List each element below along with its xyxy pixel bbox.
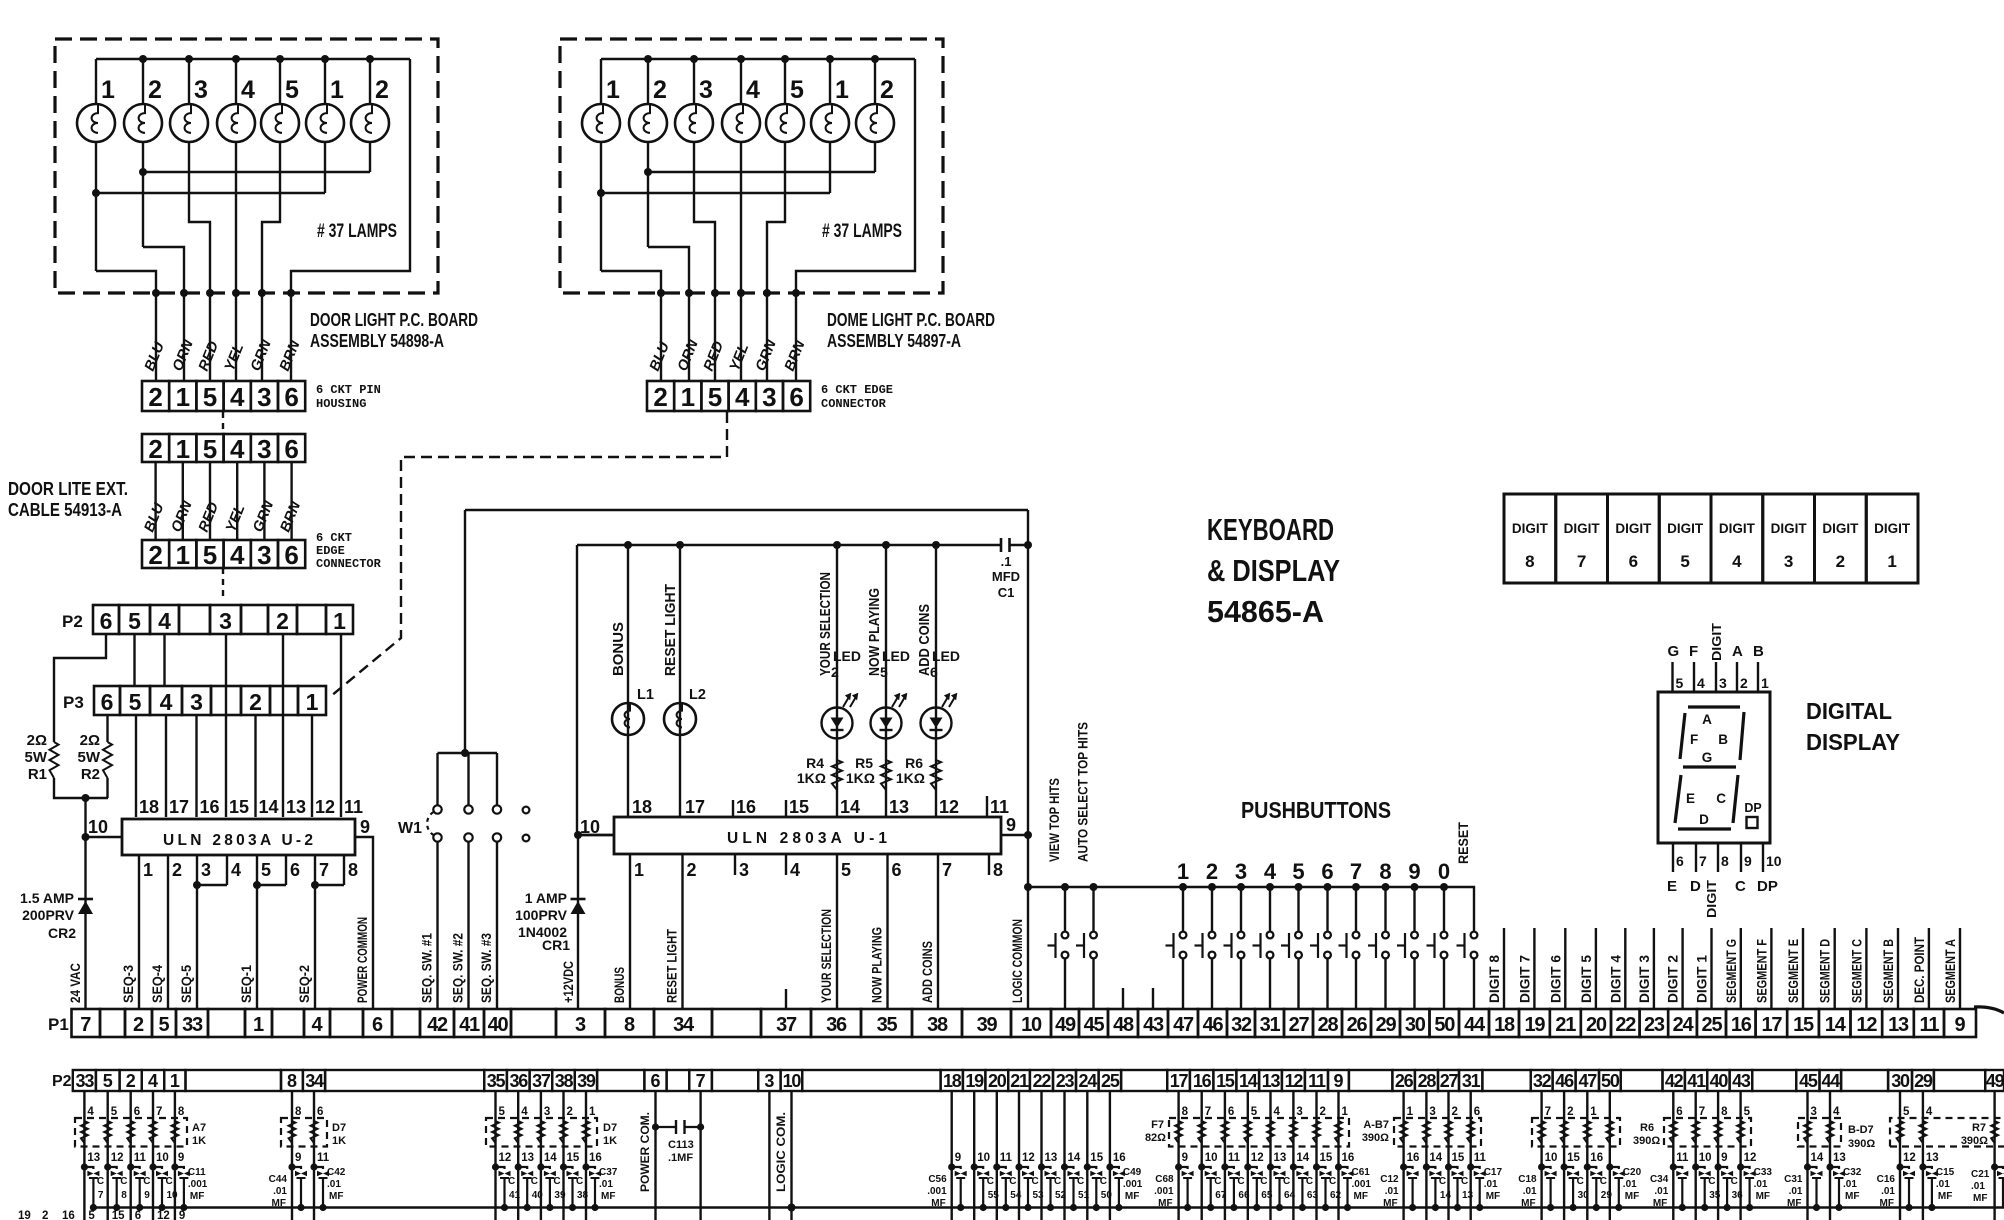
stub wire DIGIT 2: [1681, 928, 1683, 1009]
wire from P2 down: [1247, 1091, 1249, 1220]
svg-text:48: 48: [1113, 1014, 1134, 1036]
svg-text:16: 16: [62, 1210, 75, 1220]
svg-text:3: 3: [194, 76, 208, 104]
svg-text:7: 7: [156, 1106, 162, 1118]
ext cable wire YEL: [236, 462, 238, 540]
lamp 3: [675, 104, 713, 142]
resistor in network: [1267, 1121, 1274, 1143]
svg-text:12: 12: [1285, 1071, 1304, 1091]
wire lamp4 to pin: [740, 142, 742, 294]
wire lamp5 to pin: [262, 142, 280, 294]
wire P2-3 to U2 pin 15: [225, 634, 227, 817]
capacitor C68: [1175, 1163, 1182, 1170]
display DIGIT 8..1 boxes: [1504, 494, 1556, 583]
pushbutton 8: [1382, 883, 1390, 891]
svg-text:1K: 1K: [332, 1135, 346, 1147]
capacitor 53: [1015, 1163, 1022, 1170]
svg-text:MF: MF: [1486, 1191, 1500, 1202]
svg-text:2: 2: [133, 1014, 144, 1036]
svg-text:4: 4: [790, 860, 800, 880]
svg-text:3: 3: [1429, 1106, 1435, 1118]
diode CR2 1.5A 200PRV: [78, 898, 93, 901]
svg-text:1: 1: [1342, 1106, 1349, 1118]
svg-text:CONNECTOR: CONNECTOR: [316, 557, 382, 571]
svg-text:.01: .01: [1523, 1186, 1537, 1197]
svg-text:15: 15: [567, 1152, 580, 1164]
U1 pin 9 stub: [1001, 834, 1028, 836]
svg-text:29: 29: [1376, 1014, 1397, 1036]
svg-text:390Ω: 390Ω: [1362, 1132, 1389, 1144]
svg-text:5: 5: [1676, 675, 1684, 691]
svg-text:POWER COMMON: POWER COMMON: [355, 917, 370, 1003]
svg-text:KEYBOARD: KEYBOARD: [1207, 512, 1334, 547]
svg-text:MF: MF: [1787, 1198, 1801, 1209]
resistor in network: [1290, 1121, 1297, 1143]
junction: [644, 55, 652, 63]
svg-text:8: 8: [1721, 853, 1729, 869]
svg-text:R5: R5: [855, 755, 873, 771]
wire P3-3 to U2 pin 16: [195, 715, 197, 817]
wire from P2 down: [1018, 1091, 1020, 1220]
capacitor 38: [560, 1163, 567, 1170]
stub above P1 43: [1152, 988, 1154, 1009]
svg-text:YOUR SELECTION: YOUR SELECTION: [819, 909, 834, 1003]
stub wire SEGMENT A: [1959, 928, 1961, 1009]
display top pin 1: [1757, 662, 1759, 692]
svg-text:1: 1: [170, 1071, 180, 1091]
capacitor C20: [1606, 1163, 1613, 1170]
pushbutton RESET: [1471, 932, 1478, 939]
resistor in network: [1467, 1121, 1474, 1143]
svg-text:DIGIT 8: DIGIT 8: [1487, 955, 1502, 1003]
stub wire DIGIT 5: [1595, 928, 1597, 1009]
lamp 1 wire from bus: [95, 59, 97, 104]
wire U2 pins 5+6 join: [257, 855, 286, 885]
wire U2 pins 3+4 join: [197, 855, 227, 885]
resistor in network: [1198, 1121, 1205, 1143]
display bottom pin 8: [1717, 843, 1719, 872]
wire from P2 down: [1540, 1091, 1542, 1220]
svg-text:24: 24: [1673, 1014, 1695, 1036]
svg-text:3: 3: [219, 608, 232, 634]
svg-text:3: 3: [764, 1071, 774, 1091]
svg-text:13: 13: [1833, 1152, 1846, 1164]
svg-text:5W: 5W: [25, 749, 48, 766]
wire POWER COM: [654, 1091, 656, 1220]
svg-text:41: 41: [509, 1190, 521, 1201]
svg-text:6: 6: [892, 860, 902, 880]
resistor in network: [1991, 1121, 1998, 1143]
resistor in network: [1538, 1121, 1545, 1143]
switch AUTO SELECT TOP HITS: [1090, 883, 1098, 891]
svg-text:5: 5: [841, 860, 851, 880]
svg-text:39: 39: [554, 1190, 566, 1201]
svg-text:5: 5: [88, 1210, 95, 1220]
svg-text:1: 1: [253, 1014, 264, 1036]
capacitor C33: [1737, 1163, 1744, 1170]
wire to connector: [209, 293, 211, 381]
dashed network outline: [281, 1118, 327, 1147]
lamp 3 wire from bus: [693, 59, 695, 104]
svg-text:28: 28: [1318, 1014, 1339, 1036]
svg-text:MF: MF: [1354, 1191, 1368, 1202]
wire to connector: [261, 293, 263, 381]
svg-text:CR1: CR1: [542, 937, 570, 953]
svg-text:1: 1: [1887, 552, 1896, 571]
svg-text:C: C: [1577, 1176, 1584, 1187]
segment A: [1688, 705, 1740, 708]
capacitor 13: [1445, 1163, 1452, 1170]
svg-text:DIGIT 5: DIGIT 5: [1579, 955, 1594, 1003]
svg-text:23: 23: [1056, 1071, 1075, 1091]
svg-text:C: C: [1009, 1176, 1016, 1187]
pushbutton 7: [1352, 883, 1360, 891]
svg-text:CONNECTOR: CONNECTOR: [821, 397, 887, 411]
U1 pin 16 stub: [732, 800, 734, 817]
svg-text:3: 3: [699, 76, 713, 104]
svg-text:C: C: [987, 1176, 994, 1187]
capacitor 40: [515, 1163, 522, 1170]
junction: [871, 55, 879, 63]
svg-text:.01: .01: [599, 1179, 613, 1190]
svg-text:P2: P2: [62, 612, 83, 631]
svg-text:RESET: RESET: [1456, 821, 1471, 864]
stub wire DEC. POINT: [1928, 928, 1930, 1009]
svg-text:1: 1: [143, 860, 153, 880]
capacitor 14: [1423, 1163, 1430, 1170]
svg-text:47: 47: [1173, 1014, 1194, 1036]
lamp 2: [856, 104, 894, 142]
wire to connector: [235, 293, 237, 381]
svg-text:6: 6: [1474, 1106, 1480, 1118]
lamp 2 wire from bus: [647, 59, 649, 104]
svg-text:15: 15: [229, 797, 249, 817]
svg-text:13: 13: [1462, 1190, 1474, 1201]
resistor R4 1K: [832, 760, 842, 790]
capacitor 41: [492, 1163, 499, 1170]
svg-text:1: 1: [176, 434, 190, 464]
stub wire SEGMENT D: [1833, 928, 1835, 1009]
wire from P2 down: [1447, 1091, 1449, 1220]
wire lamp1 to lamp1b bus: [601, 142, 830, 271]
svg-text:8: 8: [295, 1106, 302, 1118]
wire rail B left drop to U1 pin 10 and CR1: [577, 545, 614, 1009]
svg-text:P2: P2: [52, 1073, 72, 1090]
svg-text:19: 19: [1524, 1014, 1545, 1036]
pushbutton 5: [1295, 883, 1303, 891]
junction on board edge: [232, 289, 240, 297]
svg-text:38: 38: [927, 1014, 948, 1036]
svg-text:3: 3: [257, 434, 271, 464]
resistor in network: [583, 1121, 590, 1143]
lamp 1: [811, 104, 849, 142]
svg-text:7: 7: [98, 1190, 104, 1201]
svg-text:16: 16: [1731, 1014, 1752, 1036]
dashed network outline R7: [1890, 1118, 2004, 1147]
svg-text:4: 4: [87, 1106, 94, 1118]
svg-text:26: 26: [1347, 1014, 1368, 1036]
svg-text:16: 16: [1193, 1071, 1212, 1091]
resistor in network: [150, 1121, 157, 1143]
capacitor C16: [1896, 1163, 1903, 1170]
svg-text:SEGMENT G: SEGMENT G: [1724, 939, 1739, 1003]
svg-text:C49: C49: [1123, 1167, 1142, 1178]
svg-text:MF: MF: [1158, 1198, 1172, 1209]
capacitor 10: [149, 1163, 156, 1170]
svg-text:6: 6: [134, 1106, 140, 1118]
svg-text:C37: C37: [599, 1167, 618, 1178]
svg-text:7: 7: [1205, 1106, 1211, 1118]
svg-text:29: 29: [1914, 1071, 1933, 1091]
wire seq sw 1 to P1: [436, 842, 438, 1009]
connector P2: [93, 605, 119, 634]
svg-text:1KΩ: 1KΩ: [896, 770, 925, 786]
svg-text:16: 16: [1342, 1152, 1355, 1164]
resistor in network: [289, 1121, 296, 1143]
pushbutton 6: [1324, 883, 1332, 891]
svg-text:F: F: [1689, 643, 1698, 660]
svg-text:12: 12: [111, 1152, 124, 1164]
connector 6 CKT edge connector (dome): [647, 381, 674, 411]
wire lamp3 to pin: [694, 142, 715, 294]
svg-text:P3: P3: [63, 693, 84, 712]
svg-text:.001: .001: [927, 1186, 947, 1197]
svg-text:1: 1: [101, 76, 115, 104]
lamp 2: [124, 104, 162, 142]
svg-text:1: 1: [589, 1106, 596, 1118]
svg-text:4: 4: [1274, 1106, 1281, 1118]
svg-text:DEC. POINT: DEC. POINT: [1912, 936, 1927, 1003]
junction on board edge: [258, 289, 266, 297]
wire from P2 down: [291, 1091, 293, 1220]
svg-text:2Ω: 2Ω: [80, 732, 100, 749]
svg-text:C: C: [166, 1176, 173, 1187]
svg-text:C1: C1: [998, 585, 1015, 600]
stub wire DIGIT 7: [1533, 928, 1535, 1009]
svg-text:14: 14: [1440, 1190, 1452, 1201]
svg-text:12: 12: [157, 1210, 170, 1220]
svg-text:2: 2: [1567, 1106, 1573, 1118]
svg-text:3: 3: [1784, 552, 1793, 571]
svg-text:C: C: [1735, 878, 1746, 895]
svg-text:6: 6: [100, 608, 113, 634]
resistor in network: [311, 1121, 318, 1143]
svg-text:.001: .001: [188, 1179, 208, 1190]
display top pin 4: [1693, 662, 1695, 692]
svg-text:9: 9: [1954, 1014, 1965, 1036]
svg-text:6: 6: [317, 1106, 323, 1118]
ext cable wire BLU: [154, 462, 156, 540]
svg-text:2: 2: [249, 689, 262, 715]
svg-text:DIGIT 1: DIGIT 1: [1695, 955, 1710, 1003]
wire U1 pin1 to P1 bonus: [629, 855, 631, 1009]
svg-text:C: C: [120, 1176, 127, 1187]
svg-text:& DISPLAY: & DISPLAY: [1207, 553, 1340, 588]
wire U2 pin1 to P1: [138, 855, 140, 1009]
svg-text:47: 47: [1578, 1071, 1597, 1091]
svg-text:2: 2: [1206, 859, 1218, 884]
lamp 2: [629, 104, 667, 142]
capacitor C56: [948, 1163, 955, 1170]
svg-text:5: 5: [1744, 1106, 1751, 1118]
svg-text:6: 6: [1676, 1106, 1682, 1118]
junction: [737, 55, 745, 63]
svg-text:PUSHBUTTONS: PUSHBUTTONS: [1241, 797, 1391, 823]
svg-text:DIGIT: DIGIT: [1874, 521, 1911, 536]
lamp 5 wire from bus: [279, 59, 281, 104]
wire lamp1 to pin: [601, 271, 661, 294]
svg-text:DIGIT: DIGIT: [1822, 521, 1859, 536]
svg-text:SEGMENT A: SEGMENT A: [1943, 939, 1958, 1003]
svg-text:34: 34: [673, 1014, 695, 1036]
svg-text:SEQ-1: SEQ-1: [239, 965, 254, 1003]
svg-text:1K: 1K: [192, 1135, 206, 1147]
svg-text:10: 10: [167, 1190, 179, 1201]
svg-text:40: 40: [1710, 1071, 1729, 1091]
svg-text:3: 3: [201, 860, 211, 880]
svg-text:10: 10: [580, 817, 600, 837]
svg-text:LOGIC COMMON: LOGIC COMMON: [1010, 919, 1025, 1003]
svg-text:.01: .01: [1936, 1179, 1950, 1190]
lamp 2 wire from bus: [369, 59, 371, 104]
capacitor C34: [1670, 1163, 1677, 1170]
svg-text:42: 42: [427, 1014, 448, 1036]
svg-text:13: 13: [286, 797, 306, 817]
svg-text:7: 7: [319, 860, 329, 880]
svg-text:MF: MF: [1756, 1191, 1770, 1202]
svg-text:15: 15: [112, 1210, 125, 1220]
svg-text:9: 9: [1182, 1152, 1188, 1164]
capacitor C42: [310, 1163, 317, 1170]
svg-text:DIGIT 3: DIGIT 3: [1637, 955, 1652, 1003]
svg-text:4: 4: [1697, 675, 1705, 691]
wire U2 pin2 to P1: [167, 855, 169, 1009]
svg-text:14: 14: [544, 1152, 557, 1164]
svg-text:1: 1: [176, 382, 190, 412]
lamp 5 wire from bus: [784, 59, 786, 104]
resistor in network: [1827, 1121, 1834, 1143]
svg-text:3: 3: [762, 382, 776, 412]
svg-text:25: 25: [1101, 1071, 1120, 1091]
svg-text:42: 42: [1665, 1071, 1684, 1091]
pushbutton 9: [1411, 883, 1419, 891]
svg-text:4: 4: [1264, 859, 1277, 884]
lamp 4 wire from bus: [235, 59, 237, 104]
curved leader at P1 right end: [1974, 1007, 2004, 1013]
dashed wire dome connector to P3: [331, 412, 727, 696]
svg-text:64: 64: [1284, 1190, 1296, 1201]
svg-text:18: 18: [943, 1071, 962, 1091]
svg-text:30: 30: [1405, 1014, 1426, 1036]
capacitor 39: [537, 1163, 544, 1170]
svg-text:A: A: [1702, 712, 1712, 727]
svg-text:13: 13: [1262, 1071, 1281, 1091]
dashed stub below door connector: [222, 412, 224, 431]
resistor in network: [1400, 1121, 1407, 1143]
svg-text:39: 39: [577, 1071, 596, 1091]
svg-text:31: 31: [1462, 1071, 1481, 1091]
svg-text:6 CKT PIN: 6 CKT PIN: [316, 383, 381, 397]
svg-text:9: 9: [295, 1152, 301, 1164]
svg-text:9: 9: [1333, 1071, 1343, 1091]
svg-text:2Ω: 2Ω: [27, 732, 47, 749]
svg-text:DIGIT: DIGIT: [1615, 521, 1652, 536]
junction: [366, 55, 374, 63]
wire LOGIC COM: [790, 1091, 792, 1220]
svg-text:1: 1: [1407, 1106, 1414, 1118]
svg-text:41: 41: [1687, 1071, 1706, 1091]
svg-text:10: 10: [1205, 1152, 1218, 1164]
svg-text:43: 43: [1143, 1014, 1164, 1036]
svg-text:C34: C34: [1650, 1174, 1669, 1185]
wire P2-1 to U2 pin 11: [340, 634, 342, 817]
svg-text:1: 1: [306, 689, 319, 715]
svg-text:4: 4: [735, 382, 750, 412]
junction: [690, 55, 698, 63]
svg-text:55: 55: [988, 1190, 1000, 1201]
svg-text:390Ω: 390Ω: [1633, 1135, 1660, 1147]
lamp 2: [351, 104, 389, 142]
svg-text:5: 5: [203, 382, 217, 412]
capacitor C49: [1106, 1163, 1113, 1170]
svg-text:5: 5: [103, 1071, 113, 1091]
svg-text:9: 9: [178, 1152, 184, 1164]
svg-text:LOGIC COM.: LOGIC COM.: [774, 1112, 788, 1192]
junction: [826, 55, 834, 63]
svg-text:ULN 2803A U-1: ULN 2803A U-1: [727, 830, 887, 847]
svg-text:12: 12: [1251, 1152, 1264, 1164]
lamp 1 wire from bus: [600, 59, 602, 104]
wire from P2 down: [106, 1091, 108, 1220]
svg-text:.01: .01: [1843, 1179, 1857, 1190]
svg-text:MFD: MFD: [992, 569, 1020, 584]
lamp 1: [582, 104, 620, 142]
U2 pin 10 stub: [86, 836, 123, 838]
svg-text:38: 38: [577, 1190, 589, 1201]
seq switch contact pair 1: [436, 753, 438, 805]
svg-text:3: 3: [544, 1106, 550, 1118]
svg-text:.001: .001: [1154, 1186, 1174, 1197]
svg-text:C21: C21: [1971, 1169, 1990, 1180]
wire U1 pin6 to P1 now playing: [886, 855, 888, 1009]
svg-text:63: 63: [1307, 1190, 1319, 1201]
svg-text:10: 10: [1545, 1152, 1558, 1164]
svg-text:5: 5: [1903, 1106, 1910, 1118]
svg-text:35: 35: [1709, 1190, 1721, 1201]
svg-text:P1: P1: [48, 1015, 69, 1034]
junction on board edge: [792, 289, 800, 297]
seq switch contact pair 3: [496, 753, 498, 805]
svg-text:DIGIT: DIGIT: [1771, 521, 1808, 536]
svg-text:3: 3: [1235, 859, 1247, 884]
svg-text:ADD COINS: ADD COINS: [920, 941, 935, 1003]
svg-text:D7: D7: [332, 1122, 346, 1134]
svg-text:C12: C12: [1380, 1174, 1399, 1185]
capacitor 30: [1561, 1163, 1568, 1170]
svg-text:50: 50: [1601, 1071, 1620, 1091]
svg-text:2: 2: [567, 1106, 573, 1118]
display bottom pin 7: [1695, 843, 1697, 872]
svg-text:32: 32: [1231, 1014, 1252, 1036]
svg-text:28: 28: [1418, 1071, 1437, 1091]
svg-text:11: 11: [1228, 1152, 1241, 1164]
svg-text:L2: L2: [689, 687, 706, 703]
svg-text:SEGMENT B: SEGMENT B: [1881, 939, 1896, 1003]
svg-text:DIGIT 2: DIGIT 2: [1666, 955, 1681, 1003]
svg-text:C: C: [1214, 1176, 1221, 1187]
svg-text:7: 7: [942, 860, 952, 880]
svg-text:14: 14: [1429, 1152, 1442, 1164]
